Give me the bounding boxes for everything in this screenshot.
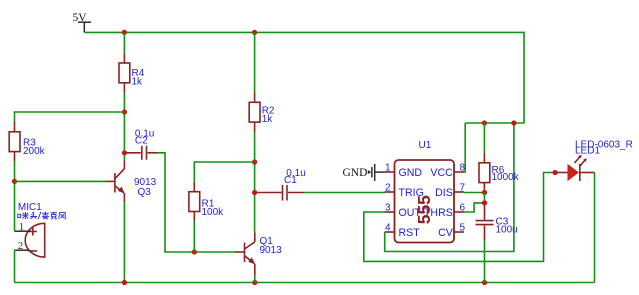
svg-text:VCC: VCC [430,167,453,179]
wire RST net [385,123,514,252]
wire R2 bottom down to Q1 collector [254,132,256,232]
wire DIS-THRS link [484,193,486,203]
node rail/Q1e [252,280,257,285]
node LED anode [552,170,557,175]
/ [38,212,41,219]
resistor R4 [119,53,145,93]
node R4/C2/Q3 collector [122,150,127,155]
wire THRS [464,203,485,212]
svg-text:555: 555 [414,195,434,224]
node R6 top [482,120,487,125]
wire C1 to TRIG [304,192,385,194]
op-amp U1 555 chip [385,140,466,243]
svg-text:1: 1 [19,221,25,233]
wire R3 bottom to mic pin1 [14,162,16,232]
wire to R1 [194,162,254,182]
resistor R3 [9,122,45,162]
power flag 5V [73,12,92,32]
transistor Q1 [245,232,283,275]
node top-rail/R4 [122,30,127,35]
svg-text:DIS: DIS [435,187,453,199]
svg-text:3: 3 [385,203,391,214]
svg-text:1k: 1k [132,76,144,87]
node rail/C3 [482,280,487,285]
node C1 left [252,190,257,195]
wire bottom rail [15,282,595,284]
node R2/R1 [252,159,257,164]
ground flag GND [343,164,386,181]
capacitor C1 [255,168,306,200]
pin 4 RST [385,231,395,233]
wire top rail [84,32,524,123]
resistor R2 [249,92,275,132]
resistor R6 [479,153,520,193]
svg-text:4: 4 [385,223,391,234]
node top-rail/R2 [252,30,257,35]
wire R4 to collector junction [123,93,125,161]
svg-text:Q3: Q3 [138,187,152,198]
pin 8 VCC [454,171,464,173]
svg-text:9013: 9013 [260,245,283,256]
svg-text:U1: U1 [419,140,432,151]
resistor R1 [189,182,224,222]
wire C3 bottom [484,241,486,283]
pin 3 OUT [385,211,395,213]
svg-text:1k: 1k [262,114,274,125]
风 [58,212,61,218]
pin 7 DIS [454,191,464,193]
wire R1 bottom [193,222,195,253]
wire R6 branch [483,123,485,153]
svg-text:GND: GND [399,167,423,179]
wire R4 branch [123,32,125,52]
capacitor C2 [124,129,157,160]
svg-text:GND: GND [343,167,368,179]
svg-text:RST: RST [399,227,421,239]
svg-text:100u: 100u [496,224,518,235]
transistor Q3 [115,160,157,202]
microphone MIC1 [15,202,45,257]
wire mic pin2 to rail [14,250,16,282]
svg-text:1: 1 [385,163,391,174]
svg-text:5: 5 [460,223,466,234]
wire C2 right to Q1 base [157,153,235,252]
wire LED cathode down [594,173,596,283]
克 [50,212,57,214]
svg-text:8: 8 [460,163,466,174]
svg-text:2: 2 [385,183,391,194]
svg-text:C2: C2 [135,135,148,146]
node rail/Q3e [122,280,127,285]
capacitor C3 [476,203,518,241]
svg-text:LED1: LED1 [575,146,600,157]
node RST/VCC rail [511,120,516,125]
svg-text:C1: C1 [284,175,297,186]
node R3/base/mic [12,179,17,184]
node R3-top tap [122,109,127,114]
node THRS/C3 [482,200,487,205]
node R6/DIS [482,190,487,195]
svg-text:MIC1: MIC1 [18,202,42,213]
pin 6 THRS [454,211,464,213]
wire VCC drop to pin8 [464,123,466,172]
pin 5 CV [454,231,464,233]
wire R2 branch [254,32,256,92]
wire DIS [464,192,485,194]
咪 [18,214,21,217]
LED LED1 [555,140,633,182]
svg-text:CV: CV [438,227,454,239]
wire Q1 emitter to rail [254,275,256,282]
wire OUT net [364,173,558,262]
pin 1 GND [385,171,395,173]
麦 [42,212,49,214]
label mic chinese 咪头/麦克风 drawn as strokes [18,212,66,219]
svg-text:200k: 200k [23,146,46,157]
头 [32,211,33,214]
svg-text:1000k: 1000k [492,172,520,183]
svg-text:2: 2 [18,240,24,252]
wire Q3 emitter to rail [123,202,125,283]
wire R3 top [15,112,125,122]
wire base of Q3 [15,180,106,182]
svg-text:100k: 100k [202,207,225,218]
pin 2 TRIG [385,191,395,193]
node R1 bottom [192,249,197,254]
